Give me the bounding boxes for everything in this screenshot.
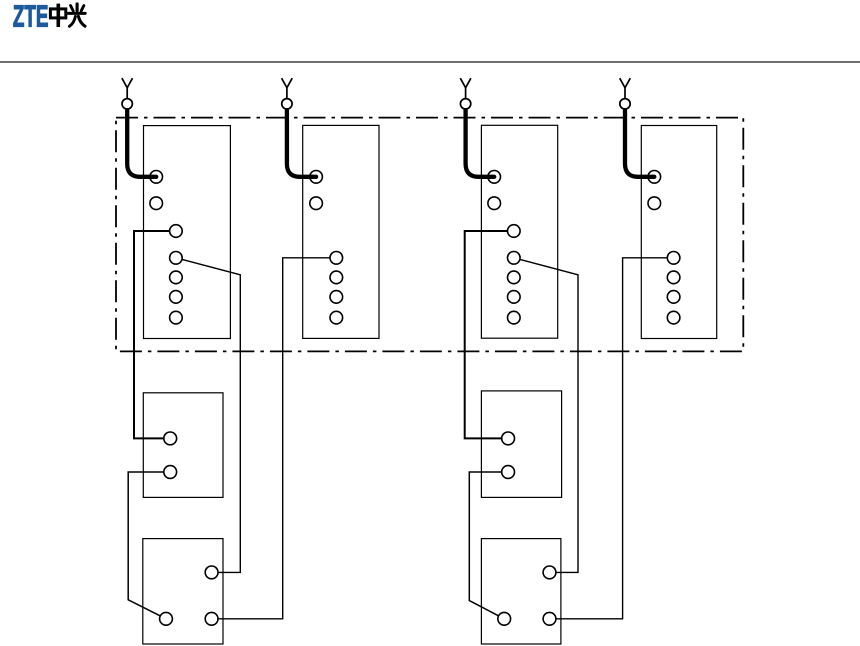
combiner box U1 xyxy=(143,393,223,498)
port M1-6 xyxy=(170,291,183,304)
port M2-6 xyxy=(330,311,343,324)
port M2-1 xyxy=(310,171,323,184)
port U4-2 xyxy=(498,612,511,625)
port U3-3 xyxy=(205,612,218,625)
antenna ANT4 xyxy=(620,78,631,109)
feeder cable ANT4 xyxy=(625,111,654,177)
duplexer box U3 xyxy=(143,539,223,644)
port M2-4 xyxy=(330,271,343,284)
feeder cable ANT3 xyxy=(466,111,495,177)
port U4-1 xyxy=(543,566,556,579)
port M1-2 xyxy=(150,197,163,210)
port M3-5 xyxy=(508,271,521,284)
port U2-1 xyxy=(502,432,515,445)
wire W2 U1.P2 to U3.P2 xyxy=(128,472,170,619)
antenna ANT2 xyxy=(282,78,293,109)
port M4-3 xyxy=(667,251,680,264)
port M1-1 xyxy=(150,171,163,184)
port M3-4 xyxy=(508,251,521,264)
feeder cable ANT2 xyxy=(287,111,316,177)
port U1-1 xyxy=(164,432,177,445)
module M4 box xyxy=(641,126,716,339)
port M2-5 xyxy=(330,291,343,304)
port M1-3 xyxy=(170,225,183,238)
port U3-1 xyxy=(205,566,218,579)
cabinet enclosure border (dash-dot) xyxy=(116,118,743,352)
svg-text:ZTE: ZTE xyxy=(13,0,49,33)
port M2-3 xyxy=(330,251,343,264)
port U4-3 xyxy=(543,612,556,625)
port M3-3 xyxy=(508,225,521,238)
port M1-7 xyxy=(170,311,183,324)
wire W1 M1.P3 to U1.P1 xyxy=(134,231,176,438)
port M4-6 xyxy=(667,311,680,324)
port M4-1 xyxy=(648,171,661,184)
module M2 box xyxy=(303,125,379,338)
port M2-2 xyxy=(310,197,323,210)
port U2-2 xyxy=(502,466,515,479)
duplexer box U4 xyxy=(481,539,561,644)
header rule xyxy=(0,61,860,63)
combiner box U2 xyxy=(481,391,561,498)
antenna ANT3 xyxy=(460,78,471,109)
antenna ANT1 xyxy=(122,78,133,109)
feeder cable ANT1 xyxy=(127,111,156,177)
port M1-4 xyxy=(170,251,183,264)
wire W7 M3.G1 to U4.P1 xyxy=(514,258,578,573)
port M4-4 xyxy=(667,271,680,284)
port M4-5 xyxy=(667,291,680,304)
wire W5 M3.P3 to U2.P1 xyxy=(465,231,514,438)
ZTE logo hanzi XING xyxy=(68,4,85,26)
port U3-2 xyxy=(160,612,173,625)
port M3-6 xyxy=(508,291,521,304)
port M1-5 xyxy=(170,271,183,284)
module M3 box xyxy=(481,125,557,338)
port M3-1 xyxy=(488,171,501,184)
port M3-7 xyxy=(508,311,521,324)
wire W3 M1.G1 to U3.P1 xyxy=(176,258,240,573)
module M1 box xyxy=(144,126,231,339)
wire W4 M2.G1 to U3.P3 xyxy=(212,258,337,619)
wire W8 M4.G1 to U4.P3 xyxy=(550,258,674,619)
ZTE logo hanzi ZHONG xyxy=(50,4,65,27)
wire W6 U2.P2 to U4.P2 xyxy=(469,472,508,619)
port M3-2 xyxy=(488,197,501,210)
port M4-2 xyxy=(648,197,661,210)
port U1-2 xyxy=(164,466,177,479)
